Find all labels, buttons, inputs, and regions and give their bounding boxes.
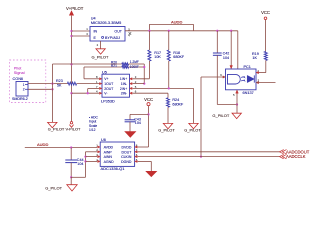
svg-text:AINN: AINN bbox=[104, 155, 113, 159]
svg-text:104: 104 bbox=[135, 121, 141, 125]
svg-text:R21: R21 bbox=[111, 64, 117, 68]
svg-text:1000F: 1000F bbox=[130, 65, 139, 69]
svg-text:CLKIN: CLKIN bbox=[121, 155, 132, 159]
svg-text:R24: R24 bbox=[172, 98, 179, 102]
svg-text:680KF: 680KF bbox=[172, 103, 184, 107]
svg-text:G_PILOT: G_PILOT bbox=[45, 186, 62, 191]
svg-text:680KF: 680KF bbox=[173, 55, 185, 59]
svg-text:G_PILOT: G_PILOT bbox=[158, 128, 175, 133]
svg-text:V+PILOT: V+PILOT bbox=[66, 6, 84, 11]
svg-text:VCC: VCC bbox=[261, 10, 270, 15]
svg-text:Signal: Signal bbox=[14, 70, 25, 75]
svg-text:VCC: VCC bbox=[144, 97, 153, 102]
svg-text:ADC1336-Q1: ADC1336-Q1 bbox=[101, 166, 126, 171]
svg-text:2IN-: 2IN- bbox=[121, 92, 127, 96]
svg-text:1OUT: 1OUT bbox=[104, 82, 113, 86]
svg-text:U5: U5 bbox=[102, 70, 107, 74]
svg-text:CON6: CON6 bbox=[13, 77, 24, 81]
svg-text:104: 104 bbox=[223, 56, 229, 60]
svg-text:AUDD: AUDD bbox=[171, 20, 182, 25]
svg-text:1IN+: 1IN+ bbox=[120, 77, 127, 81]
svg-text:G_PILOT: G_PILOT bbox=[92, 54, 109, 59]
svg-text:IN: IN bbox=[94, 30, 98, 34]
svg-text:AUDD: AUDD bbox=[37, 142, 48, 147]
svg-text:V-: V- bbox=[104, 92, 107, 96]
svg-text:1K: 1K bbox=[252, 56, 257, 60]
svg-text:1.2MF: 1.2MF bbox=[130, 60, 139, 64]
svg-text:MIC5205-3.3BM5: MIC5205-3.3BM5 bbox=[91, 20, 122, 25]
svg-text:V+: V+ bbox=[104, 77, 108, 81]
svg-text:2: 2 bbox=[23, 88, 25, 92]
svg-text:G_PILOT: G_PILOT bbox=[212, 113, 229, 118]
svg-text:1IN-: 1IN- bbox=[121, 82, 127, 86]
svg-text:1: 1 bbox=[23, 83, 25, 87]
svg-text:6N137: 6N137 bbox=[243, 91, 254, 95]
svg-text:10K: 10K bbox=[154, 55, 161, 59]
svg-text:2IN+: 2IN+ bbox=[120, 87, 127, 91]
svg-text:PC1: PC1 bbox=[244, 65, 251, 69]
svg-text:DGND: DGND bbox=[121, 160, 132, 164]
svg-text:DVDD: DVDD bbox=[121, 146, 131, 150]
svg-text:OUT: OUT bbox=[114, 30, 122, 34]
svg-text:V-PILOT: V-PILOT bbox=[66, 127, 82, 132]
svg-text:AVDD: AVDD bbox=[104, 146, 114, 150]
svg-text:SMDR6-2: SMDR6-2 bbox=[12, 97, 28, 101]
svg-text:2OUT: 2OUT bbox=[104, 87, 113, 91]
svg-text:1/12: 1/12 bbox=[89, 128, 96, 132]
svg-text:U6: U6 bbox=[101, 138, 106, 142]
svg-text:BYP/ADJ: BYP/ADJ bbox=[105, 36, 120, 40]
svg-text:AADCCLK: AADCCLK bbox=[286, 154, 306, 159]
svg-text:G_PILOT: G_PILOT bbox=[48, 127, 65, 132]
svg-text:R23: R23 bbox=[56, 79, 63, 83]
svg-text:5K: 5K bbox=[57, 84, 62, 88]
svg-text:DOUT: DOUT bbox=[121, 150, 132, 154]
svg-text:AGND: AGND bbox=[104, 160, 115, 164]
svg-text:104: 104 bbox=[77, 162, 83, 166]
svg-text:AINP: AINP bbox=[104, 150, 113, 154]
svg-text:LP353D: LP353D bbox=[101, 100, 115, 104]
svg-text:G_PILOT: G_PILOT bbox=[184, 128, 201, 133]
